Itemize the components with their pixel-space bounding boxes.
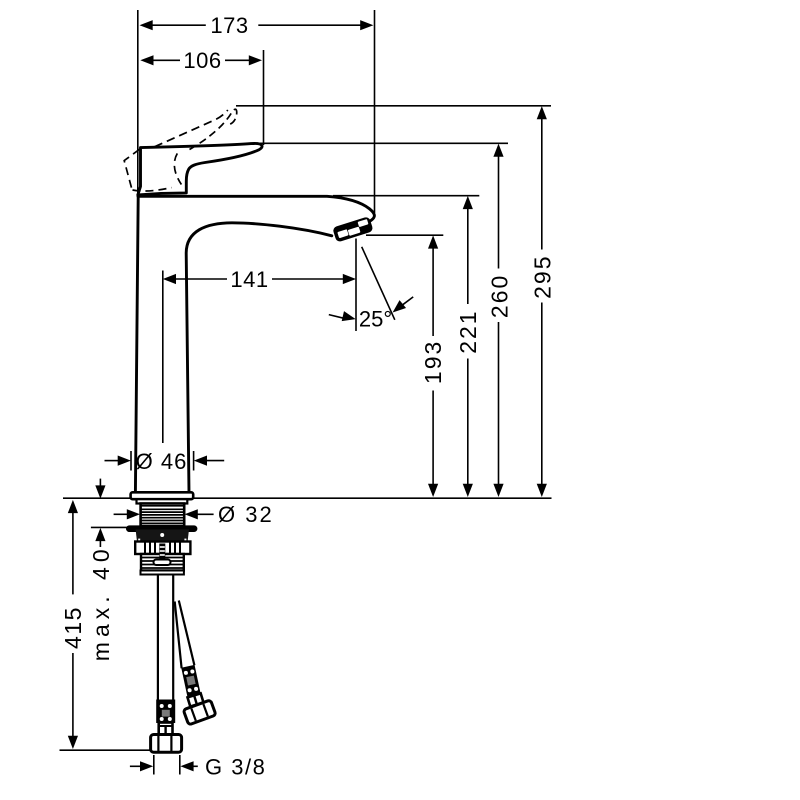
reference line 260 (top of handle) [259, 142, 509, 144]
lower tail [99, 540, 101, 547]
svg-text:141: 141 [230, 267, 268, 292]
tick right [193, 451, 195, 471]
arrow max40 up [95, 528, 105, 541]
central threaded rod [159, 544, 165, 560]
dim 106 line [152, 59, 180, 61]
body left edge [135, 197, 138, 493]
body top and spout top curve [138, 196, 374, 222]
dim diameter 46 [105, 451, 225, 471]
arrowheads horizontal dims [140, 20, 407, 324]
25 deg extension vertical [355, 239, 357, 332]
faucet body outline [135, 196, 374, 492]
arrow 295 bottom [537, 484, 547, 497]
svg-text:193: 193 [420, 340, 446, 384]
arrow 173 right [360, 20, 373, 30]
diagonal supply pipe [175, 601, 195, 669]
clamp block [136, 530, 189, 542]
dim 173 line [151, 24, 206, 26]
vertical hose neck [159, 723, 173, 735]
arrow G38 right [180, 761, 193, 771]
dashed lever raised position: lower edge [155, 110, 228, 147]
faucet body silhouette fill [135, 196, 374, 492]
svg-text:106: 106 [183, 48, 221, 73]
svg-text:25°: 25° [359, 307, 392, 332]
arrow max40 down [95, 485, 105, 498]
arrow 173 left [140, 20, 153, 30]
vertical hose braid [156, 700, 175, 724]
upper tail [99, 479, 101, 487]
lower threaded section [141, 554, 184, 571]
tails [105, 460, 120, 462]
G3/8 hex nut (diagonal hose) [183, 700, 216, 725]
spout underside and column right edge [186, 223, 332, 493]
dashed lever base bottom [133, 188, 172, 191]
arrow d32 right [185, 509, 198, 519]
arrow 141 right [343, 274, 356, 284]
svg-text:295: 295 [529, 255, 555, 299]
arrow 260 top [493, 144, 503, 157]
arrow d46 right [194, 456, 207, 466]
arrow 260 bottom [493, 484, 503, 497]
arrow 193 top [428, 235, 438, 248]
threaded shank [141, 504, 185, 527]
dim 173 extension line right [374, 10, 376, 213]
svg-text:415: 415 [60, 606, 86, 649]
svg-text:Ø 46: Ø 46 [136, 449, 188, 474]
extension tick at nut bottom [91, 526, 130, 528]
bottom datum line [60, 749, 152, 751]
slotted nut [135, 542, 190, 555]
reference line 221 (top of spout body) [333, 195, 479, 197]
svg-text:Ø 32: Ø 32 [218, 502, 274, 527]
deck / mounting surface line [63, 497, 552, 499]
arrow 25deg at diagonal [389, 300, 406, 316]
ext line left [153, 755, 155, 775]
vertical supply pipe [158, 575, 173, 700]
dim 173 extension line left [137, 10, 139, 196]
flange lip [137, 499, 188, 503]
tails [130, 765, 142, 767]
bottom band of shank [141, 571, 184, 575]
handle lever (rest position) [138, 143, 262, 194]
dim G3/8 [130, 755, 198, 775]
dashed lever raised position: upper edge and tip [190, 109, 237, 149]
arrow 141 left [163, 274, 176, 284]
dim texts [183, 13, 392, 332]
clamp white dot [160, 533, 164, 537]
arrow 221 top [463, 196, 473, 209]
dim 193 vertical line [432, 248, 434, 337]
svg-text:G 3/8: G 3/8 [205, 754, 266, 779]
dashed lever base left [124, 149, 139, 189]
dim 106 extension line right [263, 50, 265, 145]
base flange [131, 492, 194, 499]
diagonal hose braid [181, 665, 200, 697]
svg-text:260: 260 [486, 274, 512, 318]
arrow 25deg at vertical line [342, 311, 357, 324]
right side vertical dimensions [433, 118, 542, 485]
washer capsule [126, 525, 197, 532]
dim max.40 [91, 479, 130, 547]
arrow G38 left [140, 761, 153, 771]
dim 295 vertical line [541, 118, 543, 250]
tick left [130, 451, 132, 471]
reference line 193 (aerator outlet) [366, 234, 443, 236]
aerator on spout tip [332, 216, 373, 242]
dim 260 vertical line [498, 156, 500, 269]
dim 141 line [175, 278, 227, 280]
dashed lever base rear arc [174, 153, 181, 184]
reference line 295 (top of raised handle) [236, 105, 551, 107]
svg-text:221: 221 [455, 309, 481, 353]
dim diameter 32 [114, 513, 214, 515]
arrow 295 top [537, 106, 547, 119]
clamp corner dots [138, 539, 140, 541]
arrow 221 bottom [463, 484, 473, 497]
G3/8 hex nut (vertical hose) [151, 735, 182, 753]
arrow 106 left [140, 55, 153, 65]
diagonal hose neck [188, 693, 204, 706]
arrow 106 right [249, 55, 262, 65]
arrow 415 bottom [68, 736, 78, 749]
arrow d32 left [127, 509, 140, 519]
dim 221 vertical line [467, 208, 469, 304]
svg-text:max. 40: max. 40 [88, 544, 114, 661]
centerline in column (141 extension) [162, 271, 164, 444]
arrow d46 left [118, 456, 131, 466]
ext line right [179, 755, 181, 775]
25 deg leader right [403, 297, 413, 305]
dim 415 [60, 513, 152, 751]
25 deg diagonal line [362, 247, 395, 320]
svg-text:173: 173 [210, 13, 248, 38]
arrow 193 bottom [428, 484, 438, 497]
arrow 415 top [68, 500, 78, 513]
25 deg leader left [329, 315, 344, 319]
